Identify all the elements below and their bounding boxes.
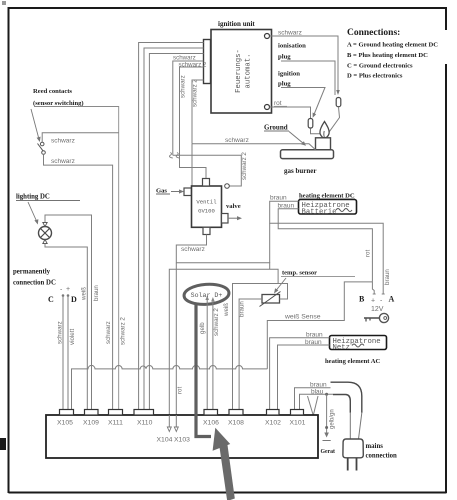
svg-text:schwarz: schwarz [51,158,75,165]
wire schwarz to burner base [192,144,316,150]
svg-text:C = Ground electronics: C = Ground electronics [347,62,413,69]
svg-text:schwarz 2: schwarz 2 [192,79,199,107]
terminal block X105 [60,410,74,416]
terminal block X108 [229,410,243,416]
svg-text:plug: plug [278,81,291,88]
svg-text:Connections:: Connections: [347,28,400,38]
svg-text:schwarz: schwarz [51,138,75,145]
svg-text:schwarz: schwarz [57,321,64,344]
scan artifact mark bottom-left [0,438,6,450]
label heating element DC [299,193,355,200]
pin X104 [167,415,171,432]
terminal B wire end [372,282,375,294]
svg-text:temp. sensor: temp. sensor [282,270,317,277]
svg-text:heating element DC: heating element DC [299,193,355,200]
wire braun1 Batterie to A terminal [270,201,384,290]
svg-text:Ventil: Ventil [196,199,217,206]
arrow to lamp [28,202,38,225]
wire temp sensor top to X108 left [233,284,288,410]
wire E ignition connector to valve top nub [180,67,207,179]
label Gas [156,188,170,195]
wire net H2 [169,269,278,415]
valve right nub [222,214,229,224]
ignition electrode E1 [308,119,313,129]
terminal block X110 [134,410,154,416]
wire braun2 Batterie to B terminal [278,209,372,282]
reed switch S1 [38,142,46,154]
svg-text:schwarz: schwarz [278,30,302,37]
heating element AC elbow tube [331,382,362,413]
svg-text:X108: X108 [228,420,244,427]
svg-text:weiß Sense: weiß Sense [284,314,321,321]
gas burner base [281,150,334,159]
svg-text:Gerat: Gerat [321,449,336,455]
wire D ignition connector to valve pin circle [173,61,204,155]
svg-text:GV100: GV100 [198,208,215,215]
svg-text:Gas: Gas [156,188,167,195]
svg-text:schwarz: schwarz [180,75,187,98]
svg-text:weiß: weiß [81,287,88,301]
wire braun Netz to X102 right [278,345,330,410]
wire F ignition connector to burner/valve body [192,80,204,144]
svg-text:rot: rot [365,249,372,257]
svg-text:X101: X101 [290,420,306,427]
scan artifact dot top-left [2,1,6,5]
wire lamp plus to X109 (braun) [45,215,92,410]
Heizpatrone Netz box [330,336,387,353]
wire reed lower to X111 [44,154,113,409]
svg-text:B: B [359,295,365,304]
wire Sense right segment to B junction [267,282,372,369]
svg-text:schwarz: schwarz [105,321,112,344]
svg-text:braun: braun [270,195,287,202]
terminal block X106 [204,410,218,416]
svg-text:mains: mains [366,443,384,450]
flame [320,122,329,138]
svg-text:plug: plug [278,54,291,61]
svg-text:violett: violett [69,329,76,345]
wire braun X101 to elbow [295,388,331,410]
wire E2 to burner [328,107,340,134]
wire rot to X103 [175,263,177,415]
wire braun1 continuation down to H1 [269,223,271,263]
svg-text:valve: valve [226,203,241,210]
pin circle bottom right of U1 [265,105,270,110]
plug prong 1 [347,458,349,471]
lamp L1 [39,223,52,244]
svg-text:Netz: Netz [333,344,351,352]
svg-text:Reed contacts: Reed contacts [33,88,72,95]
wire B ignition connector to X110 pin2 [144,48,204,410]
svg-text:D = Plus electronics: D = Plus electronics [347,73,403,80]
valve V1 Ventil GV100 [192,186,222,227]
Heizpatrone Batterie box [299,200,357,217]
svg-text:+: + [66,286,70,293]
key icon 12V battery [364,313,389,322]
label temp. sensor [281,270,355,277]
wire ionisation plug lead [281,61,335,95]
wire break squiggle on wire E [176,153,179,159]
svg-text:X102: X102 [265,420,281,427]
svg-text:X104: X104 [157,437,173,444]
svg-text:A = Ground heating element DC: A = Ground heating element DC [347,42,438,49]
svg-text:ignition unit: ignition unit [218,20,255,28]
ionisation electrode E2 [336,98,341,107]
svg-text:schwarz: schwarz [225,137,249,144]
wire schwarz2 solar to X106 [211,297,215,410]
wire D to X105 (violett) [67,296,69,410]
wire D horizontal to valve pin circle [173,155,242,186]
terminal block X109 [85,410,99,416]
svg-text:ignition: ignition [278,71,300,78]
big annotation arrow to X106 [213,428,235,500]
mains plug P1 [343,439,363,458]
svg-text:schwarz 2: schwarz 2 [241,152,248,180]
svg-text:rot: rot [177,386,184,394]
wire rot from bottom pin to ignition electrode [270,107,311,119]
wire temp sensor left to X108 right (braun) [239,299,262,410]
candle / burner jet [316,138,331,150]
pin X103 [174,415,178,432]
svg-text:Batterie: Batterie [302,208,337,216]
connector on ignition unit left [204,40,211,84]
wire valve bottom to net H1 [176,235,269,270]
svg-text:schwarz 2: schwarz 2 [120,317,127,345]
svg-text:12V: 12V [371,306,384,313]
svg-text:X109: X109 [83,420,99,427]
wire braun Netz to X102 left [270,338,330,410]
leader line sensor switching to X111 [34,107,119,410]
svg-text:permanently: permanently [13,269,51,276]
wire blau X101 to elbow [300,394,334,409]
svg-text:schwarz 2: schwarz 2 [213,308,220,336]
pin circle top right of U1 [265,34,270,39]
arrow to reed switch [31,109,41,142]
arrow Gas into valve [171,189,184,193]
svg-text:Feuerungs-: Feuerungs- [235,49,243,93]
Solar D+ oval [183,283,229,306]
svg-text:D: D [71,295,77,304]
svg-text:B = Plus heating element DC: B = Plus heating element DC [347,52,428,59]
svg-text:automat.: automat. [245,53,253,88]
wire ignition plug lead [281,88,325,115]
svg-text:connection: connection [366,453,398,460]
wire diagonal 2 into strip pin [314,396,319,415]
wire C to X105 (schwarz) [62,296,64,410]
svg-text:schwarz: schwarz [181,246,205,253]
wire C ignition connector to X110 pin3 [149,54,203,410]
svg-text:weiß: weiß [223,303,230,317]
terminal A wire end [382,291,385,295]
svg-text:+: + [371,298,375,305]
svg-text:A: A [389,295,395,304]
terminal block X102 [267,410,280,416]
valve gas inlet nub [184,188,192,196]
Connections legend [347,28,438,80]
arrow to temp sensor [274,278,286,294]
svg-text:lighting DC: lighting DC [16,194,50,201]
label lighting DC [16,194,80,201]
wire gelb solar to X106 [205,296,209,410]
svg-text:ionisation: ionisation [278,43,306,50]
svg-text:schwarz: schwarz [173,55,196,62]
valve pin circle top right [225,184,230,189]
wire stub valve body to ground wire [191,144,193,186]
terminal block X101 [291,410,304,416]
terminal block X111 [109,410,123,416]
wire break squiggle on wire D [169,153,172,159]
svg-text:braun: braun [384,269,391,285]
svg-text:heating element AC: heating element AC [325,358,381,365]
wire Sense long horizontal with hops to X105 [72,365,268,409]
svg-text:gas burner: gas burner [284,167,316,175]
ground bar [323,440,331,442]
valve bottom nub [203,227,210,234]
plug prong 2 [356,458,358,471]
svg-text:X110: X110 [137,420,153,427]
wire lamp minus to X109 (weiss) [45,244,87,410]
svg-text:X105: X105 [57,420,73,427]
arrow valve outlet [228,216,242,220]
svg-text:(sensor switching): (sensor switching) [33,100,84,107]
svg-text:X103: X103 [174,437,190,444]
svg-text:X111: X111 [108,420,123,427]
wire A ignition connector to X110 pin1 [139,43,204,410]
mains cable to plug [350,413,362,439]
svg-text:Ground: Ground [264,124,288,132]
wire diagonal into strip pin [308,396,314,415]
svg-text:X106: X106 [203,420,219,427]
svg-text:braun: braun [93,285,100,301]
valve top nub [203,179,210,187]
label Ground [264,124,289,132]
svg-text:C: C [48,295,54,304]
svg-text:connection DC: connection DC [13,280,56,287]
wire E1 to burner [311,129,321,134]
wire schwarz from top pin to ionisation electrode [270,36,339,91]
thick solar line [196,303,211,437]
svg-text:gelb: gelb [199,322,206,334]
svg-text:gelb/gn: gelb/gn [330,409,336,429]
ignition unit U1 Feuerungsautomat [211,30,272,114]
wire gelb/gn device ground [324,393,329,438]
arrow Ground to burner base [289,132,306,146]
connector strip main block [46,415,318,458]
temp sensor RT1 [260,292,281,307]
wire reed upper to X111 [42,133,119,143]
